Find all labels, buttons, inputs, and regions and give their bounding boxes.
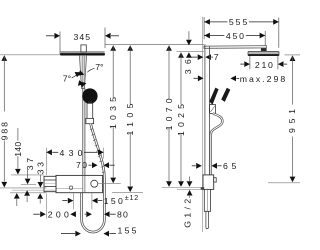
- dial nub (side): [214, 178, 217, 182]
- slider holder: [86, 118, 94, 123]
- thermostat body (front): [56, 175, 103, 192]
- ref line top (unit top level, spans to right view wall): [105, 44, 204, 46]
- svg-text:±12: ±12: [125, 193, 139, 202]
- dim 65: [192, 165, 196, 167]
- eco button: [69, 186, 72, 189]
- svg-text:200: 200: [48, 210, 69, 220]
- thermostat (side): [203, 175, 214, 190]
- dim max.298 left arrow at wall: [194, 77, 198, 79]
- dim 1025: [178, 52, 184, 58]
- dim 345 right arrow: [111, 35, 119, 37]
- arm-head connector: [261, 48, 267, 51]
- overhead shower disc (front): [60, 51, 104, 53]
- wall line: [202, 17, 204, 232]
- dim 988: [1, 55, 7, 61]
- supply ext line right: [91, 193, 93, 209]
- svg-text:80: 80: [117, 210, 128, 220]
- ref line right of disc: [284, 54, 300, 56]
- ref line lower right (handshower holder level): [268, 182, 300, 184]
- dim 555: [204, 21, 227, 23]
- svg-text:7°: 7°: [95, 62, 103, 72]
- svg-text:951: 951: [287, 109, 297, 133]
- ext line thermostat top left: [11, 174, 44, 176]
- dim 345 tick left: [59, 32, 61, 55]
- svg-text:450: 450: [226, 31, 244, 41]
- dim 140: [17, 128, 19, 141]
- ref line supply bottom (right): [177, 189, 203, 191]
- angle arrow lower-right: [80, 80, 87, 87]
- hand shower (side, angled) head: [209, 88, 218, 105]
- dim 345 tick right: [104, 28, 106, 49]
- supply ext line left: [72, 193, 74, 209]
- temperature dial: [91, 180, 98, 187]
- ext line lower left: [12, 189, 56, 191]
- dim tick at wall (555/450): [203, 17, 205, 39]
- dim 1035: [110, 45, 116, 51]
- dim 150 +/-12: [62, 200, 67, 202]
- hose upper segment (holder to thermostat, hatched): [91, 124, 105, 179]
- hose end tube (side): [206, 211, 209, 228]
- dim 951: [290, 55, 296, 61]
- G1/2 arrows: [187, 181, 193, 187]
- svg-text:70: 70: [76, 160, 87, 170]
- dim 430: [45, 148, 47, 175]
- svg-text:150: 150: [104, 196, 123, 206]
- thermostat knob (ribbed, left): [44, 176, 56, 191]
- ext line thermostat bottom right: [112, 192, 143, 194]
- dim max.298: [230, 76, 236, 82]
- angle arrow lower-left: [78, 80, 85, 87]
- svg-text:555: 555: [229, 17, 248, 27]
- svg-text:988: 988: [0, 122, 10, 140]
- svg-text:345: 345: [74, 32, 91, 42]
- ext line thermostat bottom left: [10, 192, 47, 194]
- dim 36: [188, 31, 190, 39]
- supply stub at wall (dark): [201, 187, 205, 190]
- dim 155: [61, 233, 75, 235]
- ref line top-left (disc bottom level): [0, 54, 60, 56]
- svg-text:7: 7: [214, 52, 219, 62]
- hand shower handle: [87, 103, 93, 119]
- ref line supply top (right): [162, 187, 203, 189]
- dim 7 (wall gap): [190, 56, 198, 58]
- ext line supply level left: [0, 187, 47, 189]
- dim 210: [249, 56, 251, 69]
- vertical bar pipe (side): [204, 44, 206, 175]
- svg-text:7°: 7°: [63, 74, 71, 84]
- hose loop below thermostat: [82, 178, 105, 232]
- bar passing through body: [82, 175, 84, 192]
- hand shower neck: [88, 101, 92, 103]
- hose doubled below thermostat (side): [204, 189, 210, 211]
- ref line arm underside: [177, 51, 204, 53]
- ext line dial center left: [21, 183, 36, 185]
- disc connector block: [81, 45, 86, 52]
- dim 450: [204, 35, 224, 37]
- dim 200: [33, 213, 40, 215]
- holder (side): [210, 105, 216, 114]
- svg-text:G1/2: G1/2: [182, 199, 192, 228]
- hand shower (side) second bar: [221, 88, 230, 102]
- hose hatch marks: [90, 129, 105, 173]
- dim 1070: [166, 45, 172, 51]
- hose (side) from holder curving right then down along bar: [211, 114, 223, 175]
- shower arm (side): [204, 46, 267, 49]
- dim 345 left arrow: [46, 35, 54, 37]
- overhead disc (side): [248, 51, 279, 55]
- knob face ext line lower: [45, 194, 47, 219]
- svg-text:155: 155: [118, 225, 137, 235]
- thermostat trim line: [56, 187, 82, 189]
- vertical bar (front): [82, 89, 84, 176]
- svg-text:430: 430: [60, 148, 83, 158]
- tapered arm / upper bar cone: [79, 55, 86, 88]
- dim 1105: [127, 45, 133, 51]
- hand shower head ball: [82, 88, 97, 103]
- svg-text:140: 140: [13, 142, 23, 157]
- svg-text:210: 210: [255, 60, 273, 70]
- dim 80: [85, 213, 86, 215]
- ext line dial center right: [98, 183, 121, 185]
